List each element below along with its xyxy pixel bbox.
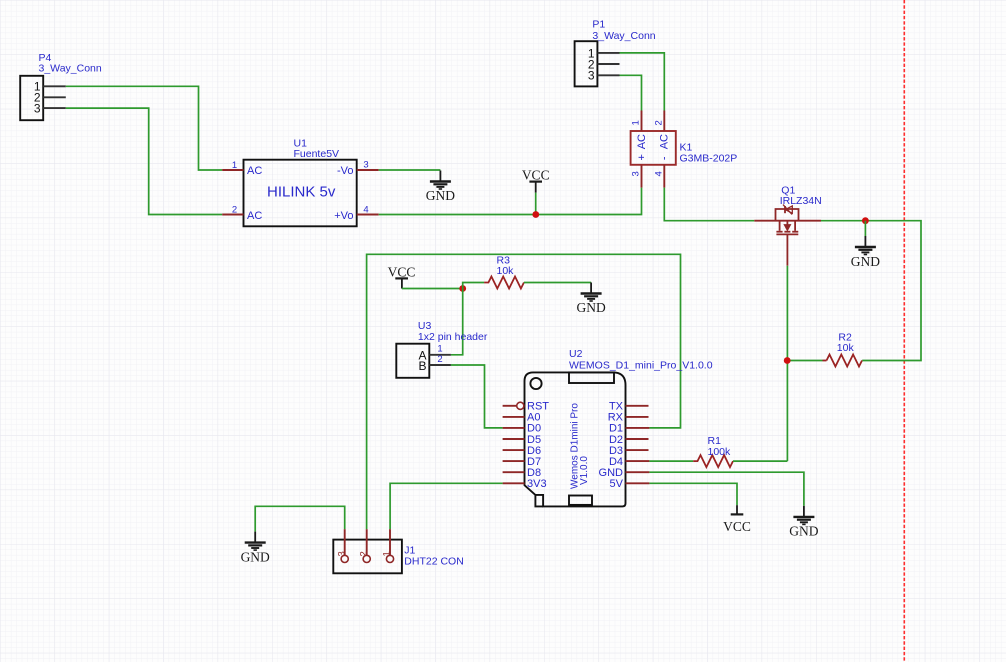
- wire down to ground at Q1: [864, 221, 866, 236]
- svg-text:1: 1: [232, 160, 237, 171]
- wire K1.4 to Q1 drain: [664, 188, 754, 221]
- connector P1: [575, 19, 656, 87]
- wire VCC to junction: [402, 288, 463, 290]
- svg-text:3_Way_Conn: 3_Way_Conn: [39, 63, 102, 75]
- wire J1.2 to U2 D1 (data net loop): [367, 254, 681, 529]
- svg-text:+: +: [636, 154, 648, 160]
- svg-text:GND: GND: [426, 188, 455, 203]
- U2 pin D4 stub: [626, 460, 650, 462]
- K1 pin 4 stub: [663, 165, 665, 188]
- microcontroller board U2: [525, 348, 713, 506]
- wire P4.3 to U1.2: [66, 108, 222, 214]
- svg-text:VCC: VCC: [723, 519, 751, 534]
- wire junction to R3: [463, 283, 484, 289]
- svg-text:3: 3: [34, 102, 41, 116]
- svg-text:3: 3: [336, 551, 347, 556]
- U3 pin 1 stub: [429, 354, 451, 356]
- resistor R3: [484, 254, 524, 288]
- P1 pin 3 stub: [597, 74, 619, 76]
- wire P1.3 to K1.1: [620, 75, 642, 110]
- J1 pin 3 stub: [344, 529, 346, 555]
- U1 pin 3 stub: [357, 169, 379, 171]
- U2 pin D6 stub: [503, 449, 525, 451]
- connector P4: [20, 52, 102, 120]
- junction dot at Q1 source: [862, 217, 869, 224]
- U2 pin D7 stub: [503, 460, 525, 462]
- svg-text:2: 2: [232, 205, 237, 216]
- U2 pin D8 stub: [503, 471, 525, 473]
- junction dot gate/R2: [784, 357, 791, 364]
- svg-text:10k: 10k: [497, 265, 515, 277]
- U3 pin 2 stub: [429, 364, 451, 366]
- P4 pin 3 stub: [43, 107, 66, 109]
- svg-text:3_Way_Conn: 3_Way_Conn: [592, 30, 655, 42]
- DHT22 connector J1: [333, 540, 464, 574]
- U2 pin GND stub: [626, 471, 650, 473]
- svg-text:GND: GND: [576, 300, 605, 315]
- wire junction down to U3.A: [451, 289, 463, 355]
- U2 pin 5V stub: [626, 482, 650, 484]
- svg-text:4: 4: [363, 205, 368, 216]
- wire U2 GND pin to ground: [649, 472, 804, 506]
- svg-text:-Vo: -Vo: [337, 165, 354, 177]
- junction dot VCC net: [532, 211, 539, 218]
- svg-text:5V: 5V: [610, 478, 624, 490]
- VCC symbol near U1: [522, 168, 550, 215]
- wire U1.3 to GND: [379, 169, 441, 171]
- svg-text:B: B: [418, 359, 426, 373]
- U2 pin RST stub with bubble: [503, 405, 517, 407]
- P4 pin 2 stub: [43, 96, 66, 98]
- VCC symbol above R3: [388, 264, 416, 288]
- K1 pin 1 stub: [641, 111, 643, 132]
- schematic sheet boundary (red dashed): [903, 0, 905, 662]
- svg-text:3: 3: [363, 160, 368, 171]
- svg-text:100k: 100k: [708, 446, 732, 458]
- svg-text:AC: AC: [247, 210, 262, 222]
- svg-text:WEMOS_D1_mini_Pro_V1.0.0: WEMOS_D1_mini_Pro_V1.0.0: [569, 360, 713, 372]
- U1 pin 4 stub: [357, 214, 379, 216]
- ground at Q1 source: [855, 236, 876, 255]
- wire Q1 gate net (gate to R2 and down to R1): [786, 266, 788, 461]
- wire P4.1 to U1.1: [66, 86, 222, 170]
- svg-text:1: 1: [382, 551, 393, 556]
- svg-text:2: 2: [437, 354, 442, 365]
- svg-text:Fuente5V: Fuente5V: [294, 148, 340, 160]
- svg-text:AC: AC: [636, 134, 648, 149]
- svg-text:1: 1: [437, 343, 442, 354]
- wire R3 to GND: [524, 282, 591, 284]
- resistor R2: [823, 331, 863, 366]
- ground at R3: [581, 283, 602, 302]
- U2 pin D3 stub: [626, 449, 649, 451]
- wire U2 5V pin to VCC: [649, 483, 737, 505]
- svg-text:1x2 pin header: 1x2 pin header: [418, 331, 488, 343]
- U2 pin D2 stub: [626, 438, 649, 440]
- svg-text:3: 3: [631, 171, 642, 176]
- svg-text:HILINK 5v: HILINK 5v: [267, 184, 336, 201]
- svg-text:GND: GND: [851, 254, 880, 269]
- svg-text:V1.0.0: V1.0.0: [579, 456, 590, 485]
- power module U1: [244, 138, 357, 227]
- svg-text:2: 2: [654, 120, 665, 125]
- wire U3.B to U2 D0: [451, 365, 503, 428]
- svg-text:DHT22 CON: DHT22 CON: [404, 556, 464, 568]
- svg-text:GND: GND: [789, 524, 818, 539]
- svg-text:10k: 10k: [837, 342, 855, 354]
- ground at U2 GND: [793, 506, 814, 525]
- K1 pin 2 stub: [663, 111, 665, 132]
- svg-text:U2: U2: [569, 348, 583, 360]
- svg-text:AC: AC: [247, 165, 262, 177]
- wire D4 to R1: [649, 460, 693, 462]
- U2 pin 3V3 stub: [503, 482, 525, 484]
- U1 pin 2 stub: [222, 214, 243, 216]
- U2 pin A0 stub: [503, 416, 525, 418]
- wire U1.4 (+Vo) to K1.3 : VCC net: [379, 188, 642, 215]
- svg-text:VCC: VCC: [522, 168, 550, 183]
- J1 pin 1 stub: [389, 529, 391, 555]
- wire R1 to gate net: [733, 460, 787, 462]
- svg-text:3V3: 3V3: [527, 478, 547, 490]
- ground at J1.3: [245, 532, 266, 551]
- P1 pin 1 stub: [597, 52, 619, 54]
- pin header U3: [396, 320, 488, 378]
- wire Q1 source to GND / R2 loop: [821, 221, 921, 361]
- U2 pin TX stub: [626, 405, 649, 407]
- VCC symbol below 5V (inverted): [723, 505, 751, 534]
- U2 left pin names: [527, 401, 549, 491]
- junction dot R3/U3: [459, 285, 466, 292]
- U2 pin D1 stub: [626, 427, 650, 429]
- P4 pin 1 stub: [43, 85, 66, 87]
- U1 pin 1 stub: [222, 169, 243, 171]
- svg-text:P1: P1: [592, 19, 605, 31]
- svg-text:2: 2: [358, 551, 369, 556]
- resistor R1: [693, 435, 733, 467]
- svg-text:IRLZ34N: IRLZ34N: [780, 195, 822, 207]
- svg-text:1: 1: [631, 120, 642, 125]
- U2 right pin names: [599, 401, 624, 491]
- P1 pin 2 stub: [597, 63, 619, 65]
- wire J1.1 to U2 3V3: [390, 483, 503, 529]
- svg-text:GND: GND: [241, 550, 270, 565]
- svg-text:G3MB-202P: G3MB-202P: [680, 152, 738, 164]
- svg-text:4: 4: [654, 171, 665, 176]
- U2 pin D0 stub: [503, 427, 525, 429]
- wire J1.3 to ground: [255, 506, 345, 531]
- U2 pin RX stub: [626, 416, 649, 418]
- svg-text:-: -: [659, 156, 671, 160]
- svg-text:AC: AC: [659, 134, 671, 149]
- ground at U1 -Vo: [430, 171, 451, 190]
- svg-text:+Vo: +Vo: [334, 210, 353, 222]
- wire P1.1 to K1.2: [620, 53, 665, 111]
- transistor Q1 IRLZ34N: [754, 205, 821, 235]
- solid state relay K1: [631, 131, 738, 165]
- svg-text:3: 3: [588, 68, 595, 82]
- J1 pin 2 stub: [366, 529, 368, 555]
- Q1 gate stub: [786, 234, 788, 265]
- U2 pin D5 stub: [503, 438, 525, 440]
- svg-text:VCC: VCC: [388, 264, 416, 279]
- K1 pin 3 stub: [641, 165, 643, 188]
